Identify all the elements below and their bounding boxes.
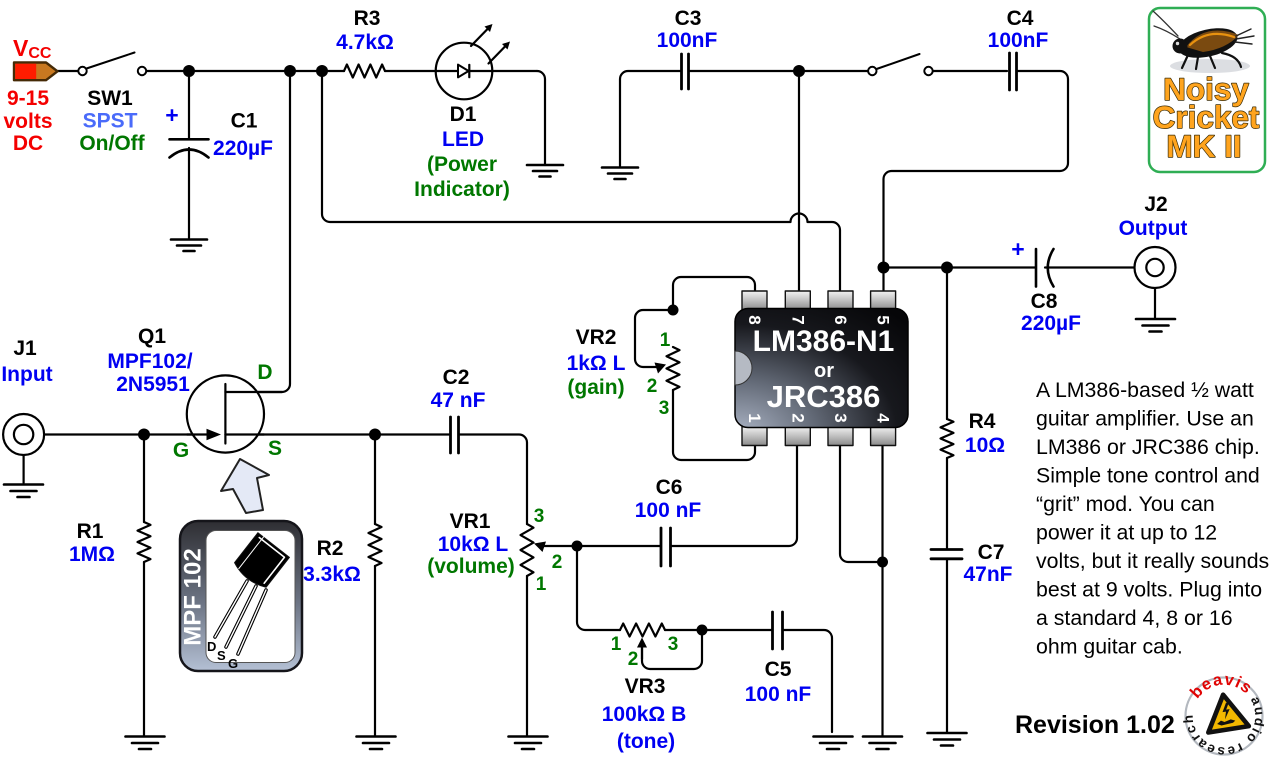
op-amp U1 pin numbers: [745, 315, 893, 423]
wire VR3 right to C5: [665, 629, 772, 631]
ground J2: [1136, 319, 1175, 332]
wire R1 to ground: [143, 562, 145, 736]
svg-text:9-15: 9-15: [7, 87, 49, 110]
capacitor C6: [661, 528, 671, 566]
resistor R1: [138, 522, 151, 562]
svg-text:SW1: SW1: [87, 87, 133, 110]
svg-text:1: 1: [611, 634, 622, 655]
capacitor C1: [170, 139, 209, 157]
svg-text:4: 4: [874, 413, 893, 423]
svg-text:VCC: VCC: [13, 35, 52, 62]
wire C5 to ground: [784, 630, 833, 732]
svg-text:guitar amplifier. Use an: guitar amplifier. Use an: [1036, 407, 1254, 431]
transistor Q1: [187, 375, 282, 452]
wire C4 return loop to IC pin 5: [884, 71, 1069, 292]
potentiometer VR1: [521, 524, 547, 576]
svg-text:a standard 4, 8 or 16: a standard 4, 8 or 16: [1036, 606, 1233, 630]
note description paragraph: [1036, 378, 1269, 659]
wire C8 to J2: [1045, 266, 1135, 268]
svg-text:C5: C5: [765, 658, 792, 681]
wire C1 riser top: [188, 71, 190, 139]
svg-text:“grit” mod. You can: “grit” mod. You can: [1036, 492, 1215, 516]
label Power Indicator: [414, 153, 510, 201]
wire C3 ground branch: [620, 71, 680, 166]
svg-text:ohm guitar cab.: ohm guitar cab.: [1036, 635, 1183, 659]
wire VR2 top to IC pin 8: [673, 277, 755, 310]
wire R4 to C7: [946, 458, 948, 548]
svg-text:(volume): (volume): [427, 555, 515, 578]
svg-text:C8: C8: [1031, 290, 1058, 313]
wire C7 to ground: [946, 559, 948, 732]
node pin3 pin4: [877, 557, 888, 568]
svg-text:1kΩ L: 1kΩ L: [567, 352, 626, 375]
svg-text:Revision 1.02: Revision 1.02: [1015, 711, 1175, 739]
node VR2 top: [668, 305, 679, 316]
svg-text:100nF: 100nF: [657, 29, 718, 52]
ground R2: [357, 737, 396, 750]
svg-text:220µF: 220µF: [1021, 312, 1081, 335]
jack J1: [3, 414, 44, 455]
wire input rail: [33, 433, 449, 435]
svg-text:Indicator): Indicator): [414, 178, 510, 201]
wire VR2 wiper loop: [635, 310, 673, 367]
svg-text:C6: C6: [656, 476, 683, 499]
op-amp U1 LM386 pins: [742, 291, 896, 446]
wire IC pin 7 riser: [798, 71, 800, 292]
svg-text:(tone): (tone): [617, 730, 675, 753]
svg-text:1: 1: [745, 413, 764, 422]
ground C5: [814, 737, 853, 750]
svg-text:C3: C3: [675, 7, 702, 30]
svg-text:JRC386: JRC386: [767, 379, 881, 414]
logo cricket drawing: [1153, 11, 1254, 73]
label Vcc: [13, 35, 52, 62]
node C1 top: [183, 65, 195, 77]
wire LED cathode to ground corner: [537, 71, 545, 165]
svg-text:100 nF: 100 nF: [635, 499, 702, 522]
svg-text:47nF: 47nF: [963, 563, 1012, 586]
wire VR3 wiper loop: [642, 630, 702, 669]
svg-text:100 nF: 100 nF: [745, 683, 812, 706]
wire C2 to VR1 top: [460, 435, 528, 525]
svg-text:+: +: [165, 102, 178, 128]
svg-text:+: +: [1011, 236, 1024, 262]
capacitor C5: [773, 612, 783, 649]
svg-text:G: G: [228, 656, 238, 671]
logo beavis audio research: [1181, 671, 1268, 760]
svg-text:DC: DC: [13, 132, 43, 155]
label Q1 part: [107, 350, 192, 396]
svg-text:Output: Output: [1119, 217, 1188, 240]
wire top rail SW1 to LED corner: [146, 70, 344, 72]
svg-text:1MΩ: 1MΩ: [69, 543, 115, 566]
capacitor C2: [451, 417, 459, 453]
svg-text:2N5951: 2N5951: [116, 373, 190, 396]
wire VR2 bottom to IC pin 1: [673, 390, 755, 460]
node VR3 wiper C5: [697, 625, 708, 636]
wire Vcc to SW1: [57, 70, 78, 72]
svg-text:VR1: VR1: [450, 510, 491, 533]
svg-text:5: 5: [874, 315, 893, 324]
ground C1: [171, 240, 207, 252]
svg-text:best at 9 volts. Plug into: best at 9 volts. Plug into: [1036, 578, 1262, 602]
ground VR1: [509, 737, 548, 750]
logo Noisy Cricket text: [1153, 71, 1260, 164]
svg-text:power it at up to 12: power it at up to 12: [1036, 521, 1217, 545]
svg-text:LM386 or JRC386 chip.: LM386 or JRC386 chip.: [1036, 435, 1260, 459]
wire output rail pin5 to C8: [884, 266, 1036, 268]
ground R1: [126, 737, 165, 750]
wire C3 to output switch: [690, 70, 868, 72]
svg-text:6: 6: [831, 315, 850, 324]
wire switch to C4: [933, 70, 1008, 72]
wire IC pin 2 to C6: [672, 444, 798, 546]
capacitor C8: [1036, 249, 1054, 287]
wire IC pin 4 to ground: [881, 444, 883, 736]
svg-text:2: 2: [647, 376, 658, 397]
ground LED: [527, 165, 563, 177]
resistor R2: [369, 524, 382, 566]
svg-text:VR2: VR2: [576, 326, 617, 349]
node R3 left: [316, 65, 328, 77]
svg-text:1: 1: [660, 330, 671, 351]
switch SW1: [78, 53, 146, 76]
svg-text:100nF: 100nF: [988, 29, 1049, 52]
svg-text:S: S: [268, 437, 282, 460]
svg-text:2: 2: [628, 649, 639, 670]
svg-text:R4: R4: [969, 410, 996, 433]
wire R4 branch top: [946, 268, 948, 420]
wire R2 riser: [374, 435, 376, 525]
svg-text:3.3kΩ: 3.3kΩ: [303, 563, 361, 586]
node drain riser: [284, 65, 296, 77]
ground C3: [602, 168, 638, 180]
svg-text:100kΩ B: 100kΩ B: [602, 703, 687, 726]
wire C6 to VR1 wiper junction: [577, 545, 660, 547]
svg-text:MPF102/: MPF102/: [107, 350, 192, 373]
inset MPF102 package box: [180, 521, 303, 671]
svg-text:MK II: MK II: [1166, 128, 1241, 164]
svg-text:3: 3: [534, 506, 545, 527]
svg-text:Q1: Q1: [138, 325, 166, 348]
svg-text:3: 3: [831, 413, 850, 422]
wire J2 to ground: [1154, 288, 1156, 318]
svg-text:LED: LED: [442, 128, 484, 151]
svg-text:volts, but it really sounds: volts, but it really sounds: [1036, 549, 1269, 573]
svg-text:2: 2: [552, 552, 563, 573]
op-amp U1 part name: [753, 325, 895, 414]
capacitor C7: [931, 550, 962, 559]
svg-text:C2: C2: [443, 366, 470, 389]
ground J1: [4, 485, 43, 498]
svg-text:Simple tone control and: Simple tone control and: [1036, 464, 1260, 488]
label 9-15 volts DC: [3, 87, 52, 155]
wire C1 to ground: [188, 148, 190, 238]
wire VR1 bottom to ground: [526, 576, 528, 736]
svg-text:S: S: [217, 648, 226, 663]
svg-text:1: 1: [536, 574, 547, 595]
svg-text:VR3: VR3: [625, 675, 666, 698]
svg-text:MPF 102: MPF 102: [180, 548, 207, 645]
resistor R3: [344, 65, 385, 78]
wire junction to VR1 wiper arrow: [542, 545, 577, 547]
wire R3 right to LED area: [385, 70, 537, 72]
wire J1 to ground: [23, 455, 25, 483]
wire junction down to VR3: [577, 546, 620, 630]
svg-text:10kΩ L: 10kΩ L: [438, 533, 509, 556]
supply symbol Vcc: [14, 63, 58, 81]
wire IC pin 3 to pin 4 line: [840, 444, 883, 562]
svg-text:7: 7: [788, 315, 807, 324]
svg-text:R3: R3: [354, 7, 381, 30]
switch SW2 output: [868, 54, 933, 75]
svg-text:D1: D1: [450, 103, 477, 126]
svg-text:SPST: SPST: [83, 110, 138, 133]
potentiometer VR2: [655, 347, 680, 390]
svg-text:8: 8: [745, 315, 764, 324]
ground C7: [928, 733, 967, 746]
callout arrow to Q1: [221, 459, 269, 513]
svg-text:D: D: [257, 361, 272, 384]
node C8 tap: [941, 262, 953, 274]
resistor R4: [941, 419, 954, 458]
svg-text:C4: C4: [1007, 7, 1034, 30]
svg-text:J1: J1: [13, 337, 37, 360]
capacitor C4: [1010, 53, 1017, 90]
node pin5 top: [878, 262, 890, 274]
svg-text:C1: C1: [231, 110, 258, 133]
wire Q1 drain riser: [225, 71, 290, 392]
node VR1 wiper: [572, 541, 583, 552]
svg-text:4.7kΩ: 4.7kΩ: [336, 31, 394, 54]
svg-text:(gain): (gain): [567, 376, 624, 399]
svg-text:10Ω: 10Ω: [965, 434, 1005, 457]
node pin7 top: [793, 65, 805, 77]
node R1 tap: [138, 429, 150, 441]
svg-text:220µF: 220µF: [213, 137, 273, 160]
ground IC pin 4: [863, 737, 902, 750]
svg-text:R1: R1: [77, 520, 104, 543]
svg-text:R2: R2: [317, 537, 344, 560]
svg-text:Input: Input: [1, 363, 52, 386]
svg-text:D: D: [207, 639, 216, 654]
capacitor C3: [682, 54, 689, 89]
svg-text:On/Off: On/Off: [79, 132, 145, 155]
node R2 tap: [369, 429, 381, 441]
svg-text:3: 3: [659, 398, 670, 419]
wire R2 to ground: [374, 566, 376, 736]
svg-text:volts: volts: [3, 110, 52, 133]
svg-text:C7: C7: [978, 541, 1005, 564]
inset TO-92 transistor drawing: [207, 533, 289, 671]
svg-text:(Power: (Power: [427, 153, 497, 176]
op-amp U1 LM386 body: [735, 309, 908, 428]
jack J2: [1135, 247, 1176, 288]
svg-text:A LM386-based ½ watt: A LM386-based ½ watt: [1036, 378, 1254, 402]
svg-text:LM386-N1: LM386-N1: [753, 325, 895, 358]
svg-text:G: G: [173, 439, 189, 462]
LED D1: [436, 24, 510, 99]
svg-text:2: 2: [788, 413, 807, 422]
wire grit loop from top rail to IC pin 6: [322, 71, 840, 292]
svg-text:47 nF: 47 nF: [431, 389, 486, 412]
svg-text:3: 3: [668, 634, 679, 655]
svg-text:J2: J2: [1144, 193, 1167, 216]
logo Noisy Cricket box: [1149, 8, 1265, 172]
wire R1 riser: [143, 435, 145, 523]
potentiometer VR3: [620, 624, 665, 660]
